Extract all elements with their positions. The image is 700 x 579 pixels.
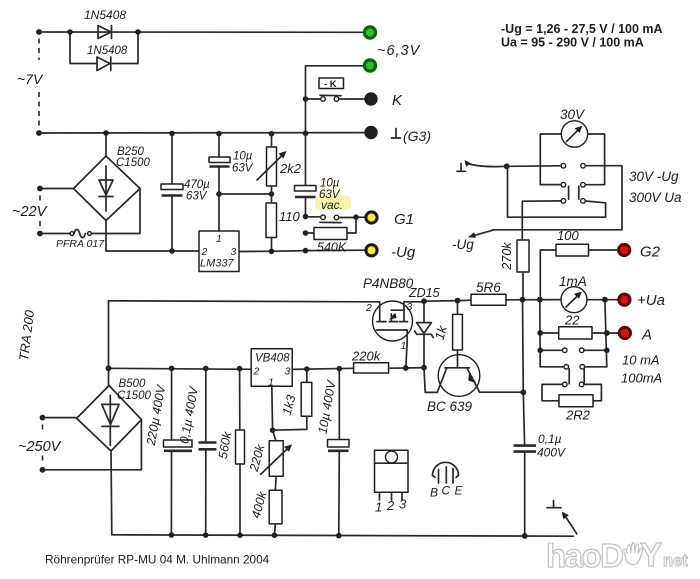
label 540K: [317, 241, 347, 255]
node rail2 10u: [216, 131, 222, 137]
title text: [45, 553, 270, 567]
node rail2 left end: [36, 130, 42, 136]
label TRA 200: [16, 309, 37, 362]
svg-text:3: 3: [407, 301, 413, 313]
label 10u 63V: [232, 151, 254, 175]
label ZD15: [408, 286, 440, 300]
label 270k: [500, 242, 514, 271]
svg-text:2: 2: [365, 302, 372, 314]
diode D2 1N5408: [97, 57, 111, 71]
svg-text:Röhrenprüfer RP-MU 04 M. Uhlm: Röhrenprüfer RP-MU 04 M. Uhlmann 2004: [45, 553, 270, 567]
svg-text:0,1µ: 0,1µ: [538, 432, 562, 446]
MOSFET P4NB80: [373, 301, 425, 368]
bridge rectifier B500 C1500: [77, 368, 142, 451]
label 1mA: [559, 274, 587, 289]
node right rail top: [602, 297, 608, 303]
svg-text:+Ua: +Ua: [637, 292, 665, 309]
node 0,1u bottom: [203, 532, 209, 538]
wire shunt right rail: [605, 300, 607, 367]
node pin1: [270, 427, 276, 433]
terminal ~6,3V lower (green): [364, 60, 375, 71]
terminal G3 (black): [364, 126, 377, 139]
node adj: [216, 191, 222, 197]
switch S2 row2: [540, 365, 607, 370]
label G1: [394, 211, 414, 228]
node 220u top: [169, 366, 175, 372]
svg-text:B: B: [430, 486, 438, 500]
zener ZD15: [415, 301, 434, 367]
wire row300 to 1k node: [424, 300, 458, 303]
svg-text:10µ: 10µ: [320, 178, 340, 190]
label ~6,3V: [377, 43, 421, 59]
svg-text:TRA 200: TRA 200: [16, 309, 37, 362]
svg-text:A: A: [641, 327, 652, 344]
label G2: [640, 244, 661, 261]
svg-text:2k2: 2k2: [279, 161, 302, 176]
node HV rail left: [106, 365, 112, 371]
node output cap bottom: [522, 533, 528, 539]
resistor 1k: [453, 301, 463, 355]
node rail2 470u: [169, 131, 175, 137]
svg-text:100mA: 100mA: [621, 371, 662, 386]
node K branch: [303, 96, 309, 102]
resistor 270k: [517, 240, 529, 300]
svg-text:~250V: ~250V: [18, 439, 62, 455]
svg-text:10 mA: 10 mA: [622, 353, 660, 368]
resistor 400k: [269, 476, 282, 535]
label ~250V: [18, 439, 62, 455]
bridge rectifier B250 C1500: [74, 133, 141, 221]
arrow to -Ug: [468, 230, 493, 238]
svg-text:P4NB80: P4NB80: [363, 276, 414, 291]
label ~22V: [12, 204, 48, 220]
label 10u 63V vac.: [319, 178, 343, 213]
svg-text:63V: 63V: [186, 191, 208, 203]
label 100: [557, 228, 579, 243]
watermark haoDIY.net: [546, 536, 688, 574]
capacitor 470u 63V: [161, 133, 183, 251]
terminal +Ua (red): [619, 294, 630, 305]
label 400k: [249, 489, 270, 520]
potentiometer 220k: [261, 430, 292, 476]
label 220k: [351, 349, 382, 364]
resistor 1k3: [273, 369, 312, 430]
node zener top: [421, 298, 427, 304]
svg-text:Y: Y: [640, 536, 662, 573]
label B250 C1500: [116, 146, 150, 169]
capacitor 10u 63V: [209, 134, 230, 194]
svg-text:63V: 63V: [232, 163, 254, 175]
wire lower-left contact to 270k: [522, 201, 561, 240]
svg-text:G1: G1: [394, 211, 414, 228]
svg-text:vac.: vac.: [321, 198, 343, 212]
node 100R feed: [537, 297, 543, 303]
MOSFET pin labels: [365, 301, 413, 352]
label 2R2: [565, 408, 591, 423]
label 10 mA: [622, 353, 660, 368]
wire bottom rail: [112, 535, 574, 536]
label 300V Ua: [629, 190, 682, 205]
label 1N5408 (D2): [87, 45, 128, 57]
svg-text:-Ug: -Ug: [452, 237, 474, 252]
potentiometer 2k2: [257, 134, 287, 194]
svg-text:3: 3: [231, 246, 237, 258]
node 470u bottom: [169, 248, 175, 254]
svg-text:1: 1: [375, 500, 382, 515]
ground symbol bottom right: [547, 501, 577, 534]
svg-text:5R6: 5R6: [476, 280, 501, 295]
terminal G2 (red): [619, 244, 630, 255]
node 1k top: [455, 298, 461, 304]
wire from lower green terminal: [306, 66, 364, 134]
node ground feed: [504, 163, 510, 169]
node 270k bottom: [520, 297, 526, 303]
svg-text:560k: 560k: [216, 430, 235, 460]
svg-text:300V Ua: 300V Ua: [629, 190, 682, 205]
label B500 C1500: [117, 378, 151, 402]
svg-text:G2: G2: [640, 244, 661, 261]
resistor 5R6: [458, 294, 562, 305]
node 560k bottom: [237, 532, 243, 538]
node 400k bottom: [272, 532, 278, 538]
svg-text:1: 1: [268, 377, 274, 389]
node: diode junction right: [135, 29, 141, 35]
wire bridge minus output: [106, 221, 199, 252]
node emitter column: [520, 389, 526, 395]
svg-text:1mA: 1mA: [559, 274, 587, 289]
switch G1 (vac): [306, 215, 357, 223]
svg-text:1N5408: 1N5408: [87, 45, 128, 57]
wire VB408 pin3 row: [292, 368, 353, 369]
resistor 560k: [236, 369, 245, 535]
node 2k2 bottom: [269, 191, 275, 197]
terminal ~6,3V upper (green): [364, 27, 375, 38]
label BC 639: [427, 399, 473, 414]
svg-text:net: net: [663, 552, 688, 570]
svg-text:VB408: VB408: [255, 353, 290, 365]
svg-text:1k3: 1k3: [280, 393, 299, 416]
node G1: [353, 214, 365, 220]
label K: [392, 92, 403, 109]
node: diode junction left: [67, 29, 73, 35]
node 220u bottom: [169, 532, 175, 538]
svg-text:2: 2: [386, 498, 395, 513]
wire top 6.3V rail: [39, 31, 363, 33]
svg-text:270k: 270k: [500, 242, 514, 271]
node -Ug row: [303, 248, 309, 254]
svg-text:3: 3: [399, 497, 407, 512]
label 5R6: [476, 280, 501, 295]
label 30V: [560, 107, 586, 122]
svg-text:~22V: ~22V: [12, 204, 48, 220]
svg-text:220k: 220k: [351, 349, 382, 364]
svg-text:C: C: [442, 484, 451, 498]
terminal K (black): [364, 92, 377, 105]
node 22 left: [537, 330, 543, 336]
svg-text:400V: 400V: [537, 446, 566, 460]
node 1k3 top: [304, 366, 310, 372]
terminal G1 (yellow): [366, 212, 377, 223]
svg-text:~7V: ~7V: [17, 71, 44, 87]
svg-text:540K: 540K: [317, 241, 347, 255]
BCE package sketch: [433, 462, 459, 483]
capacitor 10u 63V vac: [295, 133, 317, 216]
label A: [641, 327, 652, 344]
switch S2 row3 contacts: [563, 382, 584, 387]
svg-text:2: 2: [253, 366, 260, 378]
label 1N5408 (D1): [84, 8, 126, 22]
voltmeter 30V: [561, 121, 587, 147]
node 10u bottom: [336, 533, 342, 539]
switch S2 actuator bars: [569, 369, 584, 384]
terminal A (red): [619, 327, 630, 338]
transistor BC639: [437, 355, 480, 397]
label 100mA: [621, 371, 662, 386]
wire shunt left rail: [539, 300, 541, 367]
wire bridge to bottom rail: [110, 451, 113, 535]
fuse PFRA017: [40, 229, 91, 237]
svg-text:2: 2: [201, 246, 208, 258]
switch S2 row1: [540, 348, 607, 353]
net ~22V terminals: [37, 186, 73, 237]
svg-text:400k: 400k: [249, 489, 270, 520]
terminal -Ug (yellow): [366, 245, 377, 256]
label (G3) with ground sign: [392, 128, 432, 144]
label +Ua: [637, 292, 665, 309]
wire switch top row: [493, 163, 622, 229]
svg-text:2R2: 2R2: [565, 408, 591, 423]
highlight vac.: [315, 184, 351, 210]
svg-text:BC 639: BC 639: [427, 399, 473, 414]
node 22 right: [604, 330, 610, 336]
label 22: [564, 313, 580, 328]
svg-text:22: 22: [564, 313, 580, 328]
node 0,1u top: [203, 366, 209, 372]
resistor 22: [540, 327, 618, 339]
label B C E: [430, 484, 464, 500]
net ~7V dashed lead: [38, 39, 40, 128]
label 560k: [216, 430, 235, 460]
svg-text:- K: - K: [324, 79, 337, 90]
svg-text:haoD: haoD: [546, 537, 623, 574]
svg-text:30V: 30V: [560, 107, 586, 122]
wire meter left: [540, 134, 561, 185]
wire second rail (G3 ground rail): [39, 132, 364, 134]
label -Ug (feed): [452, 237, 474, 252]
capacitor 220u 400V: [164, 368, 193, 535]
switch S1 middle contacts: [561, 182, 585, 187]
svg-text:B500: B500: [119, 378, 146, 390]
switch label box -K-: [319, 78, 344, 90]
svg-text:K: K: [392, 92, 403, 109]
wire fuse to bridge right vertex: [92, 189, 141, 234]
wire emitter to HV column: [480, 391, 524, 393]
wire VB408 pin1: [271, 386, 274, 430]
svg-text:ZD15: ZD15: [408, 286, 440, 300]
wire collector to gate node: [424, 368, 437, 393]
label PFRA 017: [56, 238, 105, 250]
wire HV column: [523, 300, 525, 446]
switch K: [306, 95, 365, 101]
switch S1 actuator bars: [569, 186, 579, 199]
resistor 2R2: [559, 395, 593, 407]
capacitor 0,1u 400V output: [514, 446, 536, 536]
svg-text:100: 100: [557, 228, 579, 243]
label 30V -Ug: [629, 169, 679, 184]
node gate row left: [403, 365, 427, 371]
resistor 220k (gate): [354, 363, 424, 373]
label 1 2 3: [375, 497, 407, 515]
node row1 right: [604, 348, 610, 354]
wire meter right: [585, 134, 604, 185]
node rail2 bridge top: [103, 130, 109, 136]
svg-text:10µ 400V: 10µ 400V: [315, 378, 338, 435]
capacitor 0,1u 400V input: [199, 369, 217, 536]
wire main output row y300: [109, 301, 373, 369]
wire ground to lower-right contact: [508, 166, 606, 217]
resistor 540K: [303, 217, 356, 239]
label 0,1u 400V: [537, 432, 566, 460]
wire HV rail bottom section: [109, 368, 252, 369]
svg-text:220k: 220k: [247, 442, 268, 473]
wire parallel diode loop: [70, 32, 138, 64]
label 0,1u 400V input: [177, 384, 201, 444]
node: 7V AC input upper: [36, 29, 42, 35]
ground symbol top right: [457, 160, 507, 171]
wire adj row: [219, 193, 272, 195]
node 10u400V top: [337, 366, 343, 372]
label 220k pot: [247, 442, 268, 473]
svg-text:C1500: C1500: [116, 157, 150, 169]
svg-text:E: E: [455, 484, 464, 498]
wire LM337 output row: [239, 250, 365, 251]
switch S1 lower contacts: [561, 199, 585, 204]
diode D1 1N5408: [98, 26, 112, 39]
svg-text:0,1µ 400V: 0,1µ 400V: [177, 384, 201, 444]
svg-text:(G3): (G3): [403, 128, 431, 144]
node 110 bottom: [269, 249, 275, 255]
wire meter to +Ua: [587, 299, 618, 301]
node row1 left: [537, 348, 543, 354]
svg-text:1: 1: [216, 233, 222, 245]
label 470u 63V: [184, 179, 210, 203]
label P4NB80: [363, 276, 414, 291]
wire 2R2 loop: [542, 384, 601, 400]
spec text: [501, 22, 663, 50]
label -Ug: [391, 244, 416, 261]
label 2k2: [279, 161, 302, 176]
svg-text:1N5408: 1N5408: [84, 8, 126, 22]
svg-text:-Ug: -Ug: [391, 244, 416, 261]
capacitor 10u 400V: [328, 369, 350, 536]
svg-text:1k: 1k: [432, 323, 450, 342]
svg-text:Ua = 95 - 290 V / 100 mA: Ua = 95 - 290 V / 100 mA: [501, 36, 644, 50]
svg-text:-Ug = 1,26 - 27,5 V / 100 mA: -Ug = 1,26 - 27,5 V / 100 mA: [501, 22, 663, 36]
node vac switch: [303, 214, 309, 220]
IC LM337: [199, 194, 239, 272]
node 560k top: [237, 366, 243, 372]
svg-text:1: 1: [401, 340, 407, 352]
net ~250V: [40, 415, 142, 473]
node rail2 2k2: [269, 131, 275, 137]
svg-text:110: 110: [279, 209, 300, 224]
IC VB408: [251, 349, 292, 389]
label 220u 400V: [144, 383, 169, 448]
svg-text:~6,3V: ~6,3V: [377, 43, 421, 59]
svg-text:LM337: LM337: [200, 258, 235, 270]
node rail2 vac branch: [303, 131, 309, 137]
label 1k3: [280, 393, 299, 416]
label 10u 400V: [315, 378, 338, 435]
resistor 110: [266, 194, 277, 251]
svg-text:470µ: 470µ: [184, 179, 210, 191]
resistor 100: [540, 244, 617, 299]
label 110: [279, 209, 300, 224]
svg-text:30V -Ug: 30V -Ug: [629, 169, 679, 184]
svg-text:3: 3: [285, 366, 291, 378]
ammeter 1mA: [561, 287, 587, 313]
svg-text:PFRA 017: PFRA 017: [56, 238, 105, 250]
label ~7V: [17, 71, 44, 87]
label 1k: [432, 323, 450, 342]
svg-text:C1500: C1500: [117, 390, 151, 402]
TO220 package sketch: [375, 450, 409, 500]
svg-text:10µ: 10µ: [233, 151, 253, 163]
